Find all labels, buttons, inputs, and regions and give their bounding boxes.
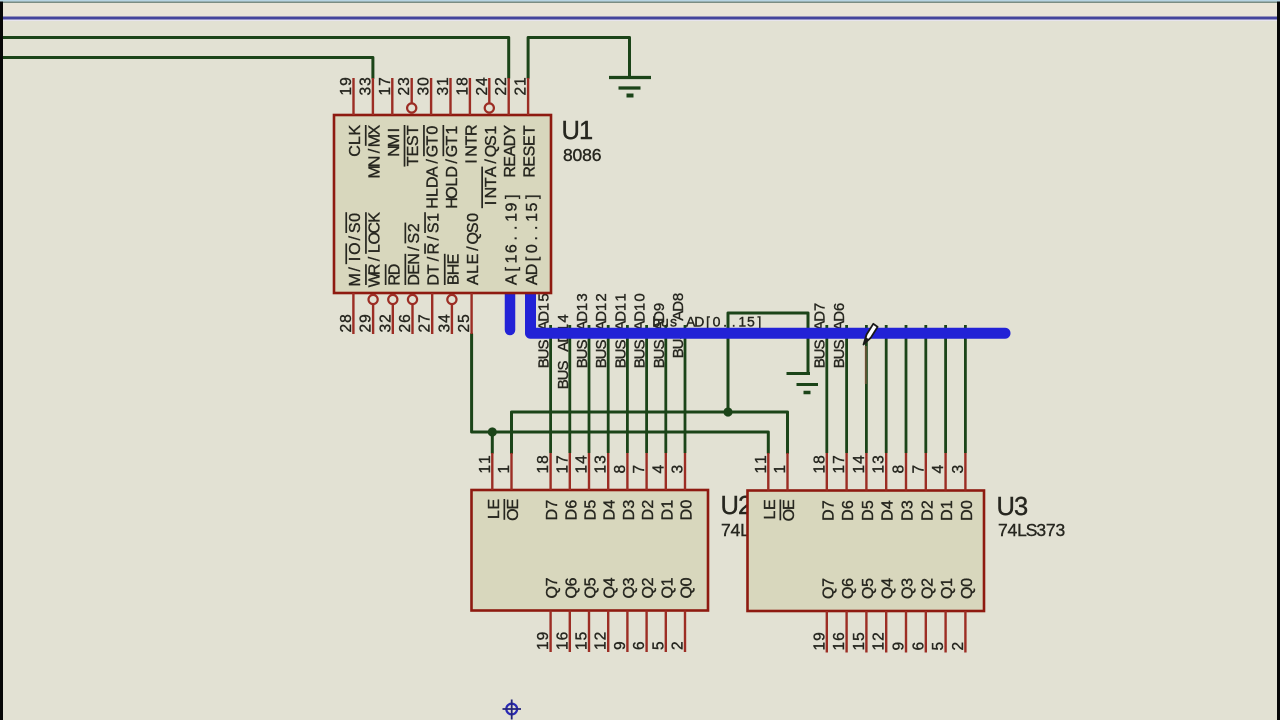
svg-text:3: 3 bbox=[670, 465, 687, 474]
svg-text:Q2: Q2 bbox=[919, 578, 936, 599]
svg-text:BHE: BHE bbox=[445, 254, 462, 285]
svg-text:8086: 8086 bbox=[563, 145, 602, 165]
svg-text:D1: D1 bbox=[659, 500, 676, 521]
svg-text:19: 19 bbox=[811, 632, 828, 650]
svg-text:M/IO/S0: M/IO/S0 bbox=[347, 213, 364, 287]
svg-text:29: 29 bbox=[358, 314, 375, 332]
svg-text:D4: D4 bbox=[880, 500, 897, 521]
svg-text:Q5: Q5 bbox=[860, 578, 877, 599]
svg-text:13: 13 bbox=[593, 455, 610, 473]
svg-text:busAD[0..15]: busAD[0..15] bbox=[652, 314, 761, 330]
svg-text:22: 22 bbox=[493, 77, 510, 95]
svg-text:D6: D6 bbox=[840, 500, 857, 521]
svg-text:11: 11 bbox=[477, 455, 494, 473]
svg-text:17: 17 bbox=[377, 77, 394, 95]
svg-text:31: 31 bbox=[435, 77, 452, 95]
svg-text:D5: D5 bbox=[583, 500, 600, 521]
svg-text:12: 12 bbox=[593, 632, 610, 650]
svg-text:5: 5 bbox=[930, 642, 947, 651]
svg-text:Q7: Q7 bbox=[544, 577, 561, 598]
svg-text:4: 4 bbox=[930, 465, 947, 474]
svg-text:D2: D2 bbox=[640, 500, 657, 521]
svg-text:19: 19 bbox=[535, 632, 552, 650]
svg-text:OE: OE bbox=[781, 499, 798, 521]
svg-text:Q1: Q1 bbox=[939, 578, 956, 599]
svg-text:Q2: Q2 bbox=[640, 577, 657, 598]
svg-text:Q3: Q3 bbox=[621, 577, 638, 598]
svg-text:WR/LOCK: WR/LOCK bbox=[367, 212, 384, 288]
svg-text:A[16..19]: A[16..19] bbox=[504, 194, 521, 285]
svg-text:33: 33 bbox=[357, 77, 374, 95]
svg-text:7: 7 bbox=[631, 465, 648, 474]
svg-text:14: 14 bbox=[851, 455, 868, 474]
svg-text:Q0: Q0 bbox=[679, 577, 696, 598]
svg-text:7: 7 bbox=[910, 465, 927, 474]
svg-text:Q6: Q6 bbox=[563, 577, 580, 598]
svg-text:2: 2 bbox=[670, 641, 687, 650]
svg-text:74LS373: 74LS373 bbox=[998, 520, 1065, 540]
svg-text:LE: LE bbox=[486, 499, 503, 519]
svg-text:9: 9 bbox=[891, 642, 908, 651]
svg-text:15: 15 bbox=[574, 632, 591, 650]
svg-text:8: 8 bbox=[612, 465, 629, 474]
svg-text:16: 16 bbox=[554, 632, 571, 650]
svg-text:DT/R/S1: DT/R/S1 bbox=[426, 213, 443, 286]
svg-text:1: 1 bbox=[772, 465, 789, 474]
svg-text:18: 18 bbox=[811, 455, 828, 473]
svg-text:8: 8 bbox=[891, 465, 908, 474]
svg-text:ALE/QS0: ALE/QS0 bbox=[465, 213, 482, 285]
svg-text:17: 17 bbox=[831, 455, 848, 473]
svg-text:Q1: Q1 bbox=[659, 577, 676, 598]
svg-text:U1: U1 bbox=[561, 117, 593, 145]
svg-text:D7: D7 bbox=[544, 500, 561, 521]
svg-text:1: 1 bbox=[496, 465, 513, 474]
svg-text:Q4: Q4 bbox=[602, 577, 619, 598]
svg-text:D7: D7 bbox=[820, 500, 837, 521]
svg-text:9: 9 bbox=[612, 641, 629, 650]
svg-text:28: 28 bbox=[338, 314, 355, 332]
svg-text:18: 18 bbox=[535, 455, 552, 473]
svg-text:LE: LE bbox=[762, 499, 779, 519]
svg-text:RESET: RESET bbox=[522, 125, 539, 177]
svg-text:U3: U3 bbox=[996, 493, 1028, 521]
svg-text:D6: D6 bbox=[563, 500, 580, 521]
svg-text:2: 2 bbox=[950, 642, 967, 651]
svg-text:D2: D2 bbox=[919, 500, 936, 521]
svg-text:D1: D1 bbox=[939, 500, 956, 521]
svg-text:14: 14 bbox=[574, 455, 591, 474]
svg-text:Q5: Q5 bbox=[583, 577, 600, 598]
svg-text:19: 19 bbox=[338, 77, 355, 95]
svg-text:16: 16 bbox=[831, 632, 848, 650]
svg-text:CLK: CLK bbox=[347, 125, 364, 157]
svg-text:Q7: Q7 bbox=[820, 578, 837, 599]
svg-text:23: 23 bbox=[396, 77, 413, 95]
svg-text:HLDA/GT0: HLDA/GT0 bbox=[425, 126, 442, 209]
svg-text:34: 34 bbox=[436, 314, 453, 333]
svg-text:5: 5 bbox=[650, 641, 667, 650]
svg-text:Q6: Q6 bbox=[840, 578, 857, 599]
svg-text:RD: RD bbox=[386, 264, 403, 286]
svg-text:21: 21 bbox=[513, 77, 530, 95]
svg-text:3: 3 bbox=[950, 465, 967, 474]
svg-text:12: 12 bbox=[871, 632, 888, 650]
svg-text:18: 18 bbox=[454, 77, 471, 95]
svg-text:24: 24 bbox=[474, 77, 491, 96]
svg-text:6: 6 bbox=[910, 642, 927, 651]
svg-text:D3: D3 bbox=[621, 500, 638, 521]
svg-text:Q4: Q4 bbox=[880, 578, 897, 599]
svg-text:30: 30 bbox=[416, 77, 433, 96]
svg-text:6: 6 bbox=[631, 641, 648, 650]
svg-text:17: 17 bbox=[554, 455, 571, 473]
svg-text:OE: OE bbox=[505, 499, 522, 521]
svg-text:D4: D4 bbox=[602, 500, 619, 521]
svg-text:READY: READY bbox=[502, 125, 519, 178]
svg-text:D5: D5 bbox=[860, 500, 877, 521]
svg-text:NMI: NMI bbox=[386, 128, 403, 157]
svg-text:D3: D3 bbox=[900, 500, 917, 521]
svg-text:11: 11 bbox=[753, 455, 770, 473]
svg-text:32: 32 bbox=[377, 314, 394, 332]
svg-text:25: 25 bbox=[456, 314, 473, 332]
svg-text:HOLD/GT1: HOLD/GT1 bbox=[444, 126, 461, 209]
svg-text:D0: D0 bbox=[679, 500, 696, 521]
svg-text:MN/MX: MN/MX bbox=[366, 125, 383, 179]
svg-text:13: 13 bbox=[871, 455, 888, 473]
svg-text:TEST: TEST bbox=[405, 125, 422, 166]
svg-text:DEN/S2: DEN/S2 bbox=[406, 223, 423, 285]
svg-text:26: 26 bbox=[397, 314, 414, 332]
svg-text:BUSAD14: BUSAD14 bbox=[555, 314, 572, 389]
svg-text:4: 4 bbox=[650, 465, 667, 474]
svg-text:Q3: Q3 bbox=[900, 578, 917, 599]
svg-text:AD[0..15]: AD[0..15] bbox=[524, 194, 541, 285]
svg-text:27: 27 bbox=[417, 314, 434, 332]
svg-text:INTR: INTR bbox=[463, 124, 480, 163]
svg-text:D0: D0 bbox=[959, 500, 976, 521]
svg-text:15: 15 bbox=[851, 632, 868, 650]
svg-text:Q0: Q0 bbox=[959, 578, 976, 599]
